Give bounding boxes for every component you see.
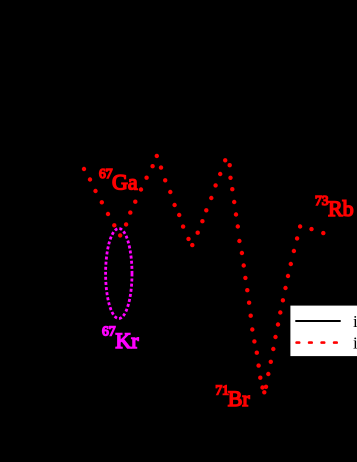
label 67Kr xyxy=(102,324,139,354)
node P2 (second peak dots) xyxy=(223,158,232,167)
svg-text:73: 73 xyxy=(315,193,329,208)
node Vbr (71Br valley bottom dots) xyxy=(260,385,266,394)
legend dashed line entry xyxy=(297,341,337,344)
svg-text:in: in xyxy=(353,312,357,331)
red dotted curve segment F (ascent from 71Br valley) xyxy=(264,236,300,389)
svg-text:Rb: Rb xyxy=(328,196,354,221)
svg-text:Kr: Kr xyxy=(115,328,139,353)
red dotted curve segment D (ascent to second peak) xyxy=(196,172,223,235)
legend solid line entry xyxy=(295,320,340,322)
svg-text:67: 67 xyxy=(99,166,113,181)
svg-text:Ga: Ga xyxy=(112,170,138,195)
red dotted curve segment E (steep descent to 71Br valley) xyxy=(228,176,262,380)
svg-text:67: 67 xyxy=(102,324,116,339)
node V2 (second valley bottom dot) xyxy=(190,243,194,247)
node Ptop (73Rb shoulder dot) xyxy=(298,224,302,228)
svg-text:in: in xyxy=(353,333,357,352)
magenta dashed ellipse highlighting 67Kr xyxy=(106,229,132,319)
label 73Rb xyxy=(315,193,354,221)
red dotted curve segment C (descent to second valley) xyxy=(159,165,191,241)
node V1 (first valley bottom dot) xyxy=(118,233,122,237)
label 71Br xyxy=(215,383,250,412)
red dotted curve tail toward 73Rb xyxy=(309,227,325,235)
node P1 (first peak dot) xyxy=(155,154,159,158)
red dotted curve segment A (descent into first valley) xyxy=(82,167,117,228)
legend box xyxy=(290,306,357,357)
red dotted curve segment B (ascent to first peak) xyxy=(124,164,155,227)
label 67Ga xyxy=(99,166,138,195)
svg-text:Br: Br xyxy=(228,386,251,411)
